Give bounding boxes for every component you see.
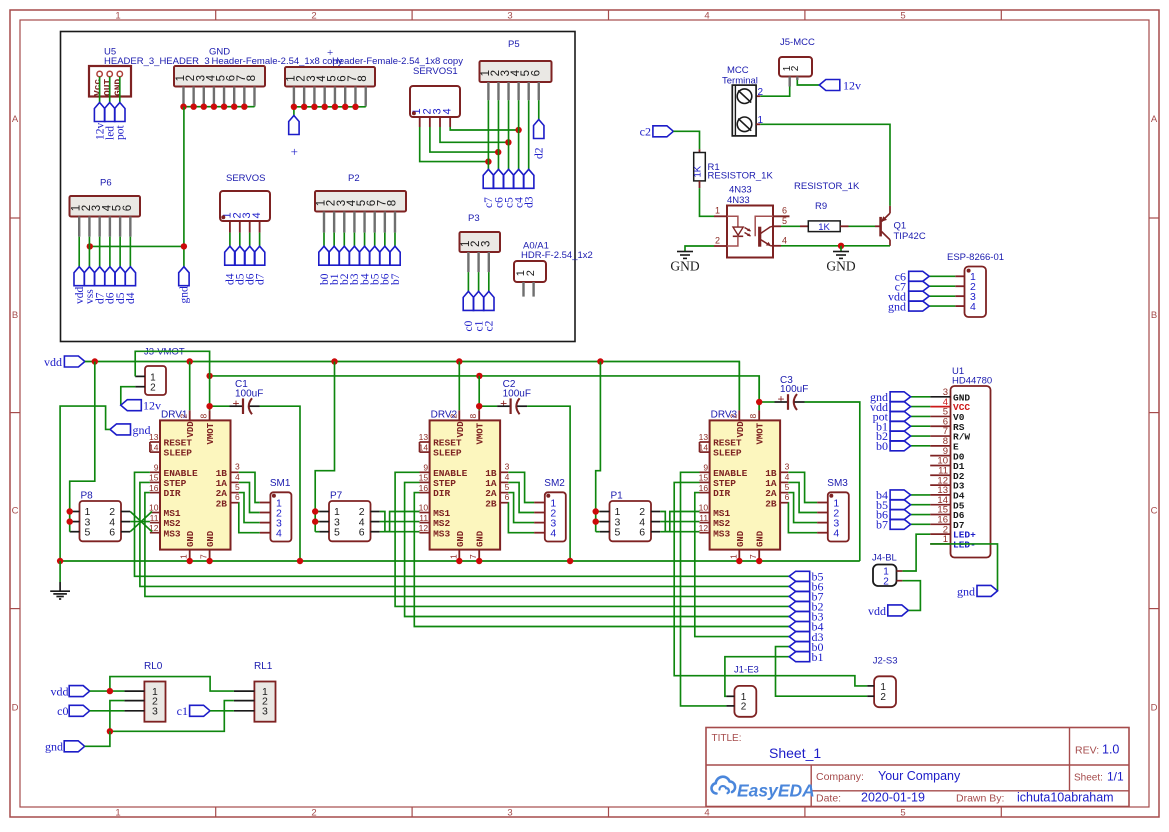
svg-text:1: 1	[115, 808, 120, 819]
wire + header bus	[294, 106, 366, 116]
svg-text:RESISTOR_1K: RESISTOR_1K	[794, 181, 860, 192]
svg-text:1: 1	[728, 554, 738, 559]
svg-text:GND: GND	[826, 259, 855, 274]
svg-text:gnd: gnd	[179, 286, 191, 304]
wire P1 crossover to DRV3 MS pins	[660, 512, 699, 532]
junction dots P7 vdd pins	[312, 508, 318, 525]
connector J5-MCC	[779, 37, 815, 87]
net flags c0 c1 c2 under P3	[463, 291, 495, 331]
svg-text:GND: GND	[736, 530, 746, 547]
svg-text:GND: GND	[186, 530, 196, 547]
connector J4-BL	[872, 553, 902, 588]
svg-text:1.0: 1.0	[1102, 743, 1119, 757]
svg-text:2B: 2B	[216, 498, 228, 509]
wire GND header bus	[184, 105, 255, 108]
svg-text:VDD: VDD	[186, 421, 196, 438]
svg-text:DIR: DIR	[164, 488, 181, 499]
junction dots P8 vdd pins	[67, 508, 73, 525]
svg-text:11: 11	[699, 513, 708, 523]
svg-text:Company:: Company:	[816, 771, 864, 783]
net flag vdd at RL0	[51, 685, 90, 699]
svg-text:9: 9	[703, 463, 708, 473]
wire J5 pin1 to MCC terminal pin2	[756, 87, 790, 97]
svg-text:gnd: gnd	[957, 584, 975, 598]
net flags c6 c7 vdd gnd at ESP	[888, 270, 929, 314]
svg-text:2: 2	[883, 576, 889, 587]
svg-text:SLEEP: SLEEP	[433, 448, 462, 459]
svg-text:VMOT: VMOT	[756, 422, 766, 444]
svg-text:RL0: RL0	[144, 661, 163, 672]
ground GND left	[670, 252, 699, 274]
svg-text:2: 2	[715, 236, 720, 246]
net flag c0 at RL0	[57, 704, 124, 718]
svg-text:b0: b0	[876, 439, 888, 453]
svg-text:5: 5	[782, 216, 787, 226]
svg-text:6: 6	[505, 492, 510, 502]
svg-text:3: 3	[480, 241, 492, 247]
svg-text:6: 6	[639, 526, 645, 538]
svg-text:15: 15	[699, 473, 709, 483]
svg-text:+: +	[500, 396, 507, 410]
connector J1-E3	[726, 665, 758, 717]
wire C1 connections	[210, 406, 300, 561]
wire U1 LED+ to J4 pin1	[902, 534, 930, 571]
svg-text:D: D	[12, 703, 19, 714]
svg-text:6: 6	[109, 526, 115, 538]
wire RL0 pin2 to RL1 pin2 gnd	[110, 701, 234, 732]
svg-text:HDR-F-2.54_1x2: HDR-F-2.54_1x2	[521, 250, 593, 261]
svg-text:5: 5	[334, 526, 340, 538]
wire VMOT rail	[210, 376, 760, 410]
wire R9 to Q1 base	[849, 225, 881, 227]
resistor R1 RESISTOR_1K	[693, 153, 774, 189]
connector SM3	[817, 478, 849, 542]
svg-text:2B: 2B	[765, 498, 777, 509]
svg-text:C: C	[1151, 506, 1158, 517]
wire SERVOS1 to P5 columns	[420, 127, 519, 162]
junction dots + header	[291, 104, 359, 110]
svg-text:gnd: gnd	[45, 740, 63, 754]
wire vdd feed to P8 pins 1 3 5	[70, 362, 95, 532]
wire bottom gnd rail	[60, 560, 860, 562]
wire J4 pin2 to vdd flag	[902, 581, 920, 611]
svg-text:GND: GND	[456, 530, 466, 547]
svg-text:4: 4	[251, 212, 263, 218]
capacitor C1 100uF	[230, 379, 264, 414]
svg-text:J4-BL: J4-BL	[872, 553, 897, 564]
net flags b4 b5 b6 b7 at U1	[876, 488, 911, 531]
connector SM1	[260, 478, 292, 542]
svg-text:C: C	[12, 506, 19, 517]
net flag vdd below J4	[868, 604, 908, 618]
connector SM2	[534, 478, 566, 542]
svg-text:MS3: MS3	[433, 528, 450, 539]
svg-text:1K: 1K	[818, 222, 830, 233]
wire J5 pin2 to 12v flag	[797, 80, 819, 85]
wire DRV2 outputs to SM2	[508, 472, 534, 532]
stepper driver DRV2	[419, 410, 510, 562]
svg-text:1: 1	[448, 554, 458, 559]
svg-text:2: 2	[150, 383, 156, 394]
terminal block MCC Terminal	[722, 65, 764, 136]
stepper driver DRV3	[699, 410, 790, 562]
capacitor C2 100uF	[497, 379, 531, 414]
svg-text:b1: b1	[812, 650, 824, 664]
wire STEP2 to b3	[405, 482, 790, 616]
wire ESP pins to flags	[929, 276, 955, 306]
wire P3 pins to flags	[468, 272, 488, 291]
svg-text:GND: GND	[112, 79, 123, 96]
svg-text:6: 6	[359, 526, 365, 538]
connector P1	[600, 491, 661, 542]
junction dots gnd net	[87, 243, 187, 249]
EasyEDA logo	[711, 777, 814, 801]
wire b1 flag to J1 pin1	[725, 657, 789, 697]
svg-text:12: 12	[419, 523, 429, 533]
wire STEP3 to J2 pin1	[674, 482, 867, 686]
svg-text:P2: P2	[348, 173, 360, 184]
wire U1 input pins to flags	[911, 397, 931, 525]
svg-text:15: 15	[419, 473, 429, 483]
svg-text:c1: c1	[177, 704, 188, 718]
svg-text:11: 11	[150, 513, 159, 523]
svg-text:2: 2	[311, 808, 316, 819]
wire DRV2 VDD to vdd rail	[458, 362, 460, 411]
net flag gnd at RL0	[45, 731, 110, 753]
svg-text:12: 12	[699, 523, 709, 533]
svg-text:ichuta10abraham: ichuta10abraham	[1017, 791, 1114, 805]
svg-text:2: 2	[790, 65, 801, 71]
svg-text:2: 2	[525, 270, 537, 276]
connector SERVOS	[220, 173, 270, 233]
connector P6	[70, 178, 141, 237]
net flag c2	[640, 125, 674, 139]
wire U1 LED- to gnd flag	[930, 544, 997, 591]
svg-text:R9: R9	[815, 201, 827, 212]
svg-text:SLEEP: SLEEP	[713, 448, 742, 459]
svg-text:J1-E3: J1-E3	[734, 665, 759, 676]
svg-text:+: +	[232, 396, 239, 410]
wire P8 crossover to DRV1 MS pins	[130, 512, 152, 532]
junction dots SERVOS1-P5	[485, 127, 522, 165]
svg-text:2: 2	[179, 414, 189, 419]
connector P3	[460, 213, 501, 272]
svg-text:c2: c2	[484, 320, 496, 331]
svg-text:4N33: 4N33	[727, 195, 750, 206]
junction dots VMOT rail	[206, 373, 482, 379]
wire C2 connections	[479, 406, 570, 561]
wire ENABLE3 to J1 pin2	[681, 472, 727, 706]
wire ENABLE1 to b5	[135, 472, 790, 576]
svg-text:8: 8	[246, 75, 258, 81]
svg-text:6: 6	[785, 492, 790, 502]
junction dot gnd node	[838, 243, 844, 249]
wire R1 to opto pin1	[700, 188, 715, 216]
svg-text:GND: GND	[206, 530, 216, 547]
svg-text:DIR: DIR	[713, 488, 730, 499]
svg-text:A: A	[1151, 114, 1158, 125]
svg-text:d3: d3	[523, 196, 535, 208]
svg-text:13: 13	[419, 432, 429, 442]
svg-text:1: 1	[179, 554, 189, 559]
svg-text:SLEEP: SLEEP	[164, 448, 193, 459]
svg-text:GND: GND	[670, 259, 699, 274]
svg-text:5: 5	[785, 482, 790, 492]
net flags b0-b7 under P2	[319, 246, 402, 285]
svg-text:5: 5	[614, 526, 620, 538]
wire opto pin2 to GND	[685, 246, 714, 251]
wire P6 pins to flags	[79, 237, 130, 267]
svg-text:MS3: MS3	[164, 528, 181, 539]
svg-text:10: 10	[149, 503, 159, 513]
svg-text:vdd: vdd	[51, 685, 69, 699]
wire J3 pin2 to 12v flag	[121, 387, 135, 406]
wire DRV3 VMOT to rail	[758, 376, 760, 410]
svg-text:VDD: VDD	[736, 421, 746, 438]
connector SERVOS1	[410, 66, 460, 127]
svg-text:vdd: vdd	[868, 604, 886, 618]
connector ESP-8266-01	[947, 252, 1004, 317]
svg-text:9: 9	[423, 463, 428, 473]
wire P7 crossover to DRV2 MS pins	[380, 512, 420, 532]
svg-text:DIR: DIR	[433, 488, 450, 499]
wire P2 pins to flags	[324, 233, 395, 247]
svg-text:VDD: VDD	[456, 421, 466, 438]
wire DRV1 VDD to vdd rail	[189, 362, 191, 411]
svg-text:8: 8	[468, 414, 478, 419]
wire GND header to gnd flag and P6 row	[90, 107, 184, 267]
svg-text:10: 10	[699, 503, 709, 513]
net flags b5 b6 b7 b2 b3 b4 d3 b0 b1 bundle	[789, 570, 823, 664]
net flag c1 at RL1	[177, 704, 234, 718]
wire vdd to RL0 pin1 and RL1 pin1	[90, 677, 234, 692]
svg-text:TITLE:: TITLE:	[712, 733, 742, 744]
svg-text:4: 4	[704, 808, 709, 819]
svg-text:6: 6	[782, 205, 787, 215]
svg-text:Sheet_1: Sheet_1	[769, 745, 821, 761]
connector J2-S3	[867, 656, 897, 708]
svg-text:8: 8	[748, 414, 758, 419]
junction dots bottom rail	[57, 558, 763, 564]
wire vdd rail	[85, 362, 739, 411]
wire c2 to R1	[673, 131, 699, 152]
wire SERVOS pins to flags	[230, 233, 260, 247]
svg-text:P8: P8	[81, 491, 94, 502]
svg-text:Your Company: Your Company	[878, 769, 961, 783]
svg-text:SERVOS: SERVOS	[226, 173, 265, 184]
svg-text:4: 4	[970, 301, 976, 313]
wire DIR1 to b7	[145, 493, 789, 597]
wire gnd flag to left ground rail	[60, 406, 110, 561]
svg-text:5: 5	[900, 808, 905, 819]
wire ENABLE2 to b2	[395, 472, 789, 606]
svg-text:5: 5	[505, 482, 510, 492]
connector P8	[70, 491, 131, 542]
svg-text:Sheet:: Sheet:	[1074, 773, 1103, 784]
svg-text:ESP-8266-01: ESP-8266-01	[947, 252, 1004, 263]
wire MCC pin1 to Q1 emitter	[756, 124, 890, 206]
svg-text:1: 1	[115, 11, 120, 22]
svg-text:3: 3	[152, 706, 158, 718]
net flag d2	[534, 120, 546, 160]
svg-text:b7: b7	[390, 273, 402, 285]
svg-text:GND: GND	[476, 530, 486, 547]
svg-text:8: 8	[199, 414, 209, 419]
transistor Q1 TIP42C	[881, 206, 926, 246]
svg-text:9: 9	[154, 463, 159, 473]
svg-text:7: 7	[468, 554, 478, 559]
svg-text:SM1: SM1	[270, 478, 291, 489]
net flag 12v under J3	[121, 399, 161, 413]
svg-text:J5-MCC: J5-MCC	[780, 37, 815, 48]
svg-text:SERVOS1: SERVOS1	[413, 66, 458, 77]
svg-text:3: 3	[235, 462, 240, 472]
svg-text:4: 4	[785, 472, 790, 482]
svg-text:16: 16	[419, 483, 429, 493]
svg-text:4: 4	[550, 528, 556, 540]
svg-text:6: 6	[530, 70, 542, 76]
capacitor C3 100uF	[775, 375, 809, 410]
net flags gnd vdd pot b1 b2 b0 at U1	[870, 390, 911, 453]
svg-text:7: 7	[748, 554, 758, 559]
wire DIR3 to d3	[695, 493, 789, 637]
svg-text:b7: b7	[876, 518, 888, 532]
svg-text:2: 2	[741, 702, 747, 713]
svg-text:GND: GND	[756, 530, 766, 547]
net flag + under header	[289, 116, 299, 160]
junction dot C3 at VMOT	[756, 399, 762, 405]
connector P7	[319, 491, 380, 542]
svg-text:A: A	[12, 114, 19, 125]
svg-text:+: +	[291, 144, 298, 159]
svg-text:J2-S3: J2-S3	[873, 656, 898, 667]
svg-text:MS3: MS3	[713, 528, 730, 539]
svg-text:VMOT: VMOT	[476, 422, 486, 444]
junction dots vdd rail	[92, 358, 604, 364]
svg-text:VMOT: VMOT	[206, 422, 216, 444]
junction dots GND header	[180, 104, 247, 110]
wire DRV3 outputs to SM3	[788, 472, 817, 532]
svg-text:P1: P1	[611, 491, 624, 502]
svg-text:10: 10	[419, 503, 429, 513]
svg-text:8: 8	[357, 75, 369, 81]
svg-text:vdd: vdd	[44, 355, 62, 369]
stepper driver DRV1	[149, 410, 240, 562]
connector + Header-Female 1x8 copy	[285, 47, 463, 106]
svg-text:d2: d2	[534, 147, 546, 159]
svg-text:5: 5	[235, 482, 240, 492]
junction dot C1 at VMOT	[206, 403, 212, 409]
svg-text:MCC: MCC	[727, 65, 749, 76]
connector P5	[480, 39, 552, 100]
svg-text:Date:: Date:	[816, 793, 841, 805]
svg-text:12v: 12v	[843, 78, 861, 92]
svg-text:2: 2	[311, 11, 316, 22]
svg-text:SM2: SM2	[544, 478, 565, 489]
connector RL0	[124, 661, 165, 722]
svg-text:pot: pot	[115, 125, 127, 141]
svg-text:EasyEDA: EasyEDA	[737, 781, 815, 801]
junction dots P1 vdd pins	[593, 508, 599, 525]
svg-text:16: 16	[149, 483, 159, 493]
title block	[706, 728, 1129, 807]
svg-text:3: 3	[262, 706, 268, 718]
svg-text:gnd: gnd	[133, 423, 151, 437]
net flag vdd left rail	[44, 355, 85, 369]
svg-text:6: 6	[122, 205, 134, 211]
net flag 12v right of J5	[819, 78, 861, 92]
svg-text:d4: d4	[125, 292, 137, 304]
wire opto pin5 to R9	[781, 225, 808, 227]
svg-text:RL1: RL1	[254, 661, 273, 672]
wire vdd feed to P1 pins 1 3 5	[596, 362, 601, 532]
svg-text:3: 3	[507, 808, 512, 819]
svg-text:2: 2	[448, 414, 458, 419]
optocoupler U 4N33	[714, 185, 790, 258]
svg-text:13: 13	[149, 432, 159, 442]
connector RL1	[234, 661, 276, 722]
wire STEP1 to b6	[140, 482, 789, 586]
svg-text:D: D	[1151, 703, 1158, 714]
svg-text:P6: P6	[100, 178, 112, 189]
wire vdd feed to P7 pins 1 3 5	[315, 362, 334, 532]
wire DRV3 VDD to vdd rail	[738, 362, 740, 411]
wire C3 connections	[759, 402, 860, 561]
junction dot gnd RL	[107, 728, 113, 734]
svg-text:2: 2	[728, 414, 738, 419]
svg-text:B: B	[1151, 310, 1157, 321]
svg-text:7: 7	[199, 554, 209, 559]
svg-text:13: 13	[699, 432, 709, 442]
svg-text:+: +	[777, 392, 784, 406]
net flag gnd under J3	[110, 423, 151, 437]
ground GND right	[826, 246, 855, 274]
net flag gnd below GND header	[179, 267, 191, 304]
net flags d4 d5 d6 d7 under SERVOS	[225, 246, 267, 285]
svg-text:c2: c2	[640, 125, 651, 139]
svg-text:1/1: 1/1	[1107, 770, 1124, 784]
svg-text:1K: 1K	[693, 165, 704, 177]
svg-text:11: 11	[419, 513, 428, 523]
svg-text:TIP42C: TIP42C	[894, 231, 926, 242]
svg-text:8: 8	[386, 200, 398, 206]
svg-text:Drawn By:: Drawn By:	[956, 793, 1004, 805]
svg-text:gnd: gnd	[888, 299, 906, 313]
svg-text:P3: P3	[468, 213, 480, 224]
wire DRV2 VMOT to rail	[478, 376, 480, 410]
svg-text:4N33: 4N33	[729, 185, 752, 196]
junction dot C2 at VMOT	[476, 403, 482, 409]
svg-text:c0: c0	[57, 704, 68, 718]
svg-text:15: 15	[149, 473, 159, 483]
svg-text:2: 2	[758, 87, 764, 98]
connector U1 HD44780	[930, 366, 992, 558]
svg-text:12v: 12v	[143, 399, 161, 413]
connector U5 HEADER_3_HEADER_3	[89, 47, 210, 97]
wire DRV1 outputs to SM1	[239, 472, 260, 532]
svg-text:5: 5	[900, 11, 905, 22]
ground earth symbol bottom left	[50, 561, 70, 599]
connector P2	[315, 173, 406, 233]
svg-text:5: 5	[84, 526, 90, 538]
svg-text:B: B	[12, 310, 18, 321]
junction dot vdd RL	[107, 688, 113, 694]
wire opto pin4 to Q1 collector and GND	[781, 245, 890, 247]
wire DRV1 VMOT to rail	[209, 376, 211, 410]
svg-text:16: 16	[699, 483, 709, 493]
svg-text:4: 4	[505, 472, 510, 482]
wire J3 pin1 to VMOT rail	[135, 351, 209, 376]
